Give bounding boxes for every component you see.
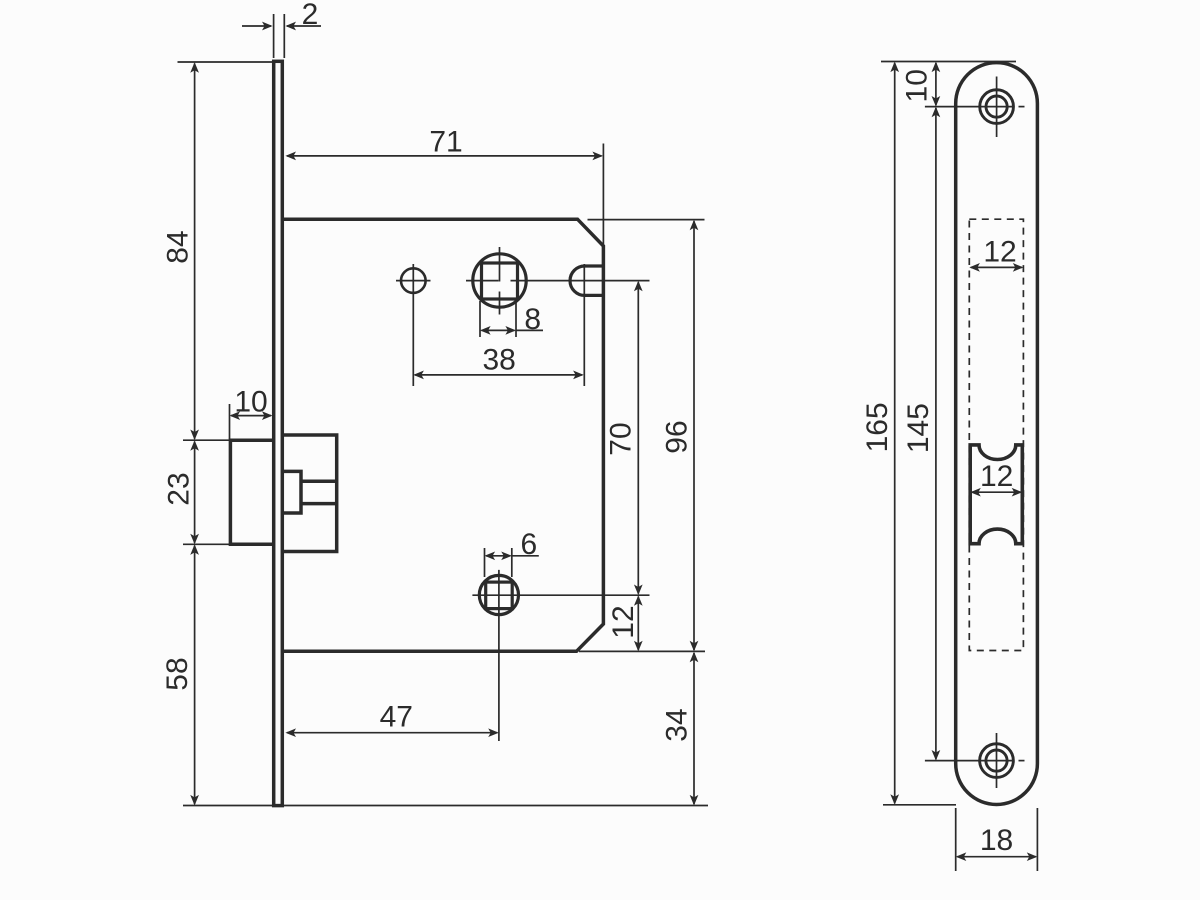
dimension 96 label [661,420,694,453]
dimension 10 line [230,411,273,420]
top screw hole inner [986,96,1007,117]
latch cutout opening [970,445,1022,544]
dimension 84 extension line top [178,61,284,63]
dimension 18 label [980,824,1013,857]
dimension 96 line [690,220,699,652]
svg-text:38: 38 [483,343,516,376]
svg-text:2: 2 [302,0,319,31]
small fixing hole [401,268,426,293]
svg-text:18: 18 [980,824,1013,857]
dimension 12 top line [969,263,1023,272]
lock body outline with chamfered corners [281,219,603,651]
dimension 10 right line [932,62,941,107]
dimension 165 extension line top [881,61,1016,63]
dimension 47 line [285,728,498,737]
svg-text:34: 34 [660,708,693,741]
dimension 96 extension line top [588,219,705,221]
svg-text:12: 12 [983,235,1016,268]
svg-text:71: 71 [429,125,462,158]
dimension 12 middle line [970,488,1022,497]
lower square hole circle [479,575,518,614]
dimension 34 label [660,708,693,741]
hidden lock body (dashed) [969,219,1023,650]
spindle hole vertical centerline [499,247,501,315]
D-hole vertical centerline [583,264,585,386]
dimension 2 arrows and lines [242,22,321,31]
dimension 8 extension lines [480,301,516,337]
dimension 38 label [483,343,516,376]
dimension 6 extension lines [485,548,512,577]
dimension 47 label [380,700,413,733]
spindle hole circle (top) [473,254,526,307]
latch tail link bars [301,481,337,503]
dimension 18 line [956,852,1038,861]
dimension 12 left line [634,595,643,651]
dimension 71 extension line right [602,144,604,247]
D-shaped edge hole [570,266,603,295]
svg-text:145: 145 [902,403,935,453]
svg-text:8: 8 [524,303,541,336]
dimension 23 label [162,472,195,505]
latch bolt protrusion [230,440,275,544]
dimension 71 line [285,152,603,161]
bottom screw hole outer [980,744,1014,778]
dimension 96 extension line bottom [579,650,705,652]
dimension 38 line [413,371,583,380]
small fixing hole centerlines [396,264,431,386]
dimension 84 label [161,230,194,263]
dimension 71 label [429,125,462,158]
dimension 2 extension lines [274,14,285,58]
svg-text:10: 10 [234,385,267,418]
dimension 70 label [605,422,638,455]
dimension 10 extension line [229,404,231,439]
dimension 58 line [190,544,199,805]
bottom extension line (58 / 34) [183,805,708,807]
dimension 165 line [890,62,899,805]
svg-text:10: 10 [901,69,934,102]
svg-text:165: 165 [861,402,894,452]
dimension 23 extension lines [183,440,230,544]
bottom screw hole inner [986,750,1007,771]
dimension 10 label [234,385,267,418]
dimension 58 label [161,657,194,690]
dimension 6 label [520,528,537,561]
svg-text:84: 84 [161,230,194,263]
spindle hole square (top) [482,263,518,299]
dimension 6 line [485,551,539,560]
svg-text:70: 70 [605,422,638,455]
top screw hole outer [980,90,1014,124]
dimension 165 extension line bottom [883,804,956,806]
dimension 145 label [902,403,935,453]
svg-text:6: 6 [520,528,537,561]
dimension 70 line [634,281,643,595]
dimension 12 left label [607,605,640,638]
svg-text:23: 23 [162,472,195,505]
dimension 84 line [190,62,199,440]
horizontal centerline through holes / 70 extension [466,280,650,282]
dimension 12 top label [983,235,1016,268]
lower hole vertical centerline / 47 extension [498,570,500,741]
latch bolt body inside case [282,435,337,552]
faceplate front outline (rounded ends) [956,63,1038,805]
top screw hole centerlines [925,77,1025,138]
lower square hole square [486,582,513,609]
latch guide small rectangle [282,471,301,513]
dimension 165 label [861,402,894,452]
svg-text:12: 12 [607,605,640,638]
dimension 8 line [480,326,543,335]
faceplate side view (tall thin plate) [274,61,283,805]
dimension 23 line [190,440,199,544]
bottom screw hole centerlines [925,733,1025,788]
dimension 10 right label [901,69,934,102]
dimension 34 line [690,652,699,806]
dimension 2 label [302,0,319,31]
svg-text:96: 96 [661,420,694,453]
svg-text:12: 12 [980,460,1013,493]
svg-text:47: 47 [380,700,413,733]
svg-text:58: 58 [161,657,194,690]
dimension 18 extension lines [956,808,1038,871]
dimension 8 label [524,303,541,336]
lower hole horizontal centerline / 12 extension [472,594,649,596]
dimension 145 line [932,107,941,761]
dimension 12 middle label [980,460,1013,493]
